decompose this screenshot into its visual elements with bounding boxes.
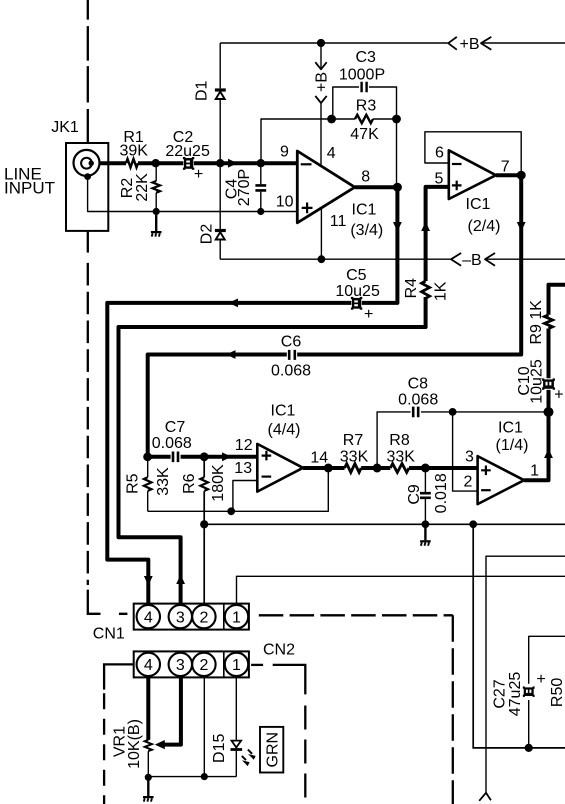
svg-text:13: 13 [234, 460, 252, 477]
SECTION: flow arrows [144, 159, 553, 586]
resistor R7 [345, 464, 362, 473]
wire CN2 boundary right corner [273, 665, 306, 695]
wire +B rail [220, 42, 565, 44]
node C4 pin10 junction [257, 208, 264, 215]
resistor R3 [355, 115, 373, 123]
wire -B rail [220, 258, 565, 260]
svg-text:180K: 180K [210, 464, 227, 502]
op-amp IC1 4/4 minus mark [262, 476, 272, 478]
potentiometer VR1 wiper arrow [155, 740, 165, 749]
svg-text:8: 8 [361, 168, 370, 185]
node arrow up on pin1 riser [544, 449, 553, 459]
node C2 D-rail junction [216, 159, 224, 167]
wire C5 bus from pin8 [107, 187, 397, 606]
wire D2 rail upper [219, 163, 221, 229]
svg-text:11: 11 [330, 213, 347, 230]
svg-text:0.018: 0.018 [433, 473, 450, 513]
svg-text:2: 2 [199, 609, 208, 626]
node C10 output junction [544, 407, 554, 417]
resistor R2 [152, 181, 160, 193]
svg-text:4: 4 [327, 145, 336, 162]
node +B drop Y connector [315, 96, 326, 103]
wire dashed boundary below JK1 [87, 231, 89, 253]
svg-text:4: 4 [144, 609, 153, 626]
wire CN2 pin2 drop [203, 675, 205, 776]
SECTION: medium wires [204, 457, 565, 748]
resistor R4 [422, 281, 430, 298]
op-amp IC1 3/4 minus mark [301, 163, 312, 165]
wire VR1 lower lead [147, 751, 149, 777]
node C8 pin2 junction [449, 408, 457, 416]
wire main signal segment C [194, 161, 297, 165]
wire main signal segment A [91, 161, 126, 165]
node arrow down on pin8 riser [393, 222, 402, 232]
wire R3 line [332, 118, 397, 120]
svg-text:0.068: 0.068 [398, 392, 438, 409]
op-amp IC1 1/4 [478, 456, 524, 504]
svg-text:6: 6 [435, 145, 444, 162]
wire CN2 boundary right dashed [304, 706, 306, 804]
wire CN2 boundary right stub [251, 664, 263, 666]
op-amp IC1 4/4 plus mark [262, 451, 272, 461]
diode D2 [215, 231, 226, 240]
wire riser to bottom corner [473, 524, 565, 748]
capacitor C6 [289, 350, 295, 360]
wire dashed module boundary top segment [87, 0, 89, 144]
wire pin12 line segment B [181, 455, 258, 459]
wire IC1 1/4 output pin1 [524, 412, 548, 480]
capacitor C5 [351, 297, 362, 310]
wire R50 box with C27 [529, 636, 565, 748]
wire R5 riser [147, 457, 149, 512]
wire pin2 riser IC1 1/4 [453, 412, 477, 491]
node C4 feedback junction [257, 159, 265, 167]
svg-text:9: 9 [280, 144, 289, 161]
svg-text:R8: R8 [389, 432, 410, 449]
svg-text:D1: D1 [194, 80, 211, 101]
node mid bus riser junction [469, 520, 477, 528]
wire CN2 pin4 to VR1 [146, 675, 150, 740]
node arrow right on signal line [228, 159, 238, 168]
svg-text:10K(B): 10K(B) [126, 719, 143, 769]
ground at C9 [420, 524, 431, 546]
node R3 left [327, 115, 336, 124]
wire D1 rail upper [219, 43, 221, 88]
wire mid bus line [204, 523, 565, 525]
svg-text:+: + [536, 671, 545, 688]
wire pin12 line segment A [148, 455, 171, 459]
svg-text:33K: 33K [386, 449, 415, 466]
svg-text:+B: +B [459, 36, 479, 53]
node arrow down to CN1 pin4 [144, 576, 153, 586]
wire CN1 pin2 drop [203, 524, 205, 606]
svg-text:2: 2 [199, 657, 208, 674]
wire pin5 R4 bus [119, 187, 449, 606]
svg-text:33K: 33K [340, 449, 369, 466]
svg-text:(3/4): (3/4) [350, 222, 383, 239]
resistor R9 [545, 315, 553, 329]
node +B chevron left [448, 37, 457, 50]
wire R2 riser lower [155, 193, 157, 212]
svg-text:10: 10 [276, 193, 294, 210]
svg-text:270P: 270P [236, 169, 253, 206]
svg-text:C5: C5 [346, 267, 367, 284]
op-amp IC1 3/4 plus mark [302, 203, 313, 214]
wire pin11 riser [320, 208, 322, 259]
svg-text:D15: D15 [211, 734, 228, 763]
SECTION: boundary dashes [88, 0, 453, 804]
svg-text:1: 1 [232, 657, 241, 674]
node VR1 bottom [145, 774, 152, 781]
node arrow left on C6 bus [226, 350, 236, 359]
node R3 right [392, 115, 401, 124]
svg-text:47K: 47K [350, 126, 379, 143]
wire D2 rail lower [219, 239, 221, 259]
svg-text:33K: 33K [155, 467, 172, 496]
node R1 R2 junction [152, 159, 160, 167]
svg-text:(2/4): (2/4) [468, 218, 501, 235]
svg-text:12: 12 [235, 437, 253, 454]
svg-text:INPUT: INPUT [4, 178, 55, 197]
wire pin13 stub and riser [233, 481, 257, 512]
SECTION: bus chevrons [315, 37, 495, 266]
LED D15 [231, 741, 255, 765]
wire IC1 4/4 feedback line [148, 468, 329, 511]
wire C6 bus from pin7 [148, 175, 522, 457]
wire C10 R9 riser [549, 285, 565, 412]
connector CN2 [134, 651, 249, 677]
capacitor C2 [183, 157, 194, 170]
node +B chevron right [481, 37, 491, 50]
SECTION: thick wires [91, 163, 565, 744]
wire main signal segment B [138, 161, 183, 165]
node C9 bottom [422, 520, 430, 528]
connector JK1 [66, 143, 108, 231]
wire CN2 boundary left corner [104, 664, 134, 689]
wire R2 riser upper [155, 163, 157, 181]
svg-text:R4: R4 [403, 278, 420, 299]
svg-text:1: 1 [530, 463, 539, 480]
SECTION: junction dots [143, 39, 553, 781]
wire IC1 3/4 output pin8 [355, 185, 398, 189]
op-amp IC1 1/4 minus mark [481, 489, 491, 491]
capacitor C27 [523, 686, 535, 696]
svg-text:22u25: 22u25 [165, 143, 210, 160]
wire CN2 pin3 to wiper [164, 675, 181, 744]
svg-text:+: + [194, 166, 203, 183]
wire D1 rail lower [219, 99, 221, 163]
svg-text:R7: R7 [343, 432, 364, 449]
op-amp IC1 1/4 plus mark [481, 466, 491, 476]
wire big loop right side [486, 556, 565, 793]
svg-text:0.068: 0.068 [152, 435, 192, 452]
svg-text:CN2: CN2 [263, 642, 295, 659]
node CN2 pin2 bottom [201, 773, 208, 780]
wire IC1 2/4 feedback loop [425, 132, 521, 175]
resistor R8 [390, 464, 409, 473]
label box GRN [260, 727, 283, 773]
svg-text:3: 3 [465, 448, 474, 465]
svg-text:R3: R3 [356, 98, 377, 115]
svg-text:39K: 39K [119, 142, 148, 159]
node C27 bottom [525, 744, 533, 752]
op-amp IC1 2/4 minus mark [452, 163, 462, 165]
wire +B drop stem [320, 43, 322, 69]
diode D1 [215, 90, 226, 99]
svg-text:R9 1K: R9 1K [528, 300, 545, 345]
SECTION: thin wires [88, 43, 565, 801]
svg-text:GRN: GRN [264, 732, 281, 768]
svg-text:R5: R5 [125, 473, 142, 494]
svg-text:D2: D2 [199, 224, 216, 245]
wire CN2 boundary left dashed [103, 693, 105, 804]
node arrow up to CN1 pin3 [176, 575, 185, 585]
wire C9 riser [424, 468, 426, 524]
node pin13 feedback [227, 507, 235, 515]
wire pin14 R7 R8 to pin3 [303, 466, 477, 470]
svg-text:C8: C8 [408, 376, 429, 393]
node R6 bottom [200, 520, 208, 528]
resistor R6 [200, 477, 208, 491]
node pin11 -B junction [318, 255, 326, 263]
node pin7 output [517, 171, 526, 180]
wire R3 feedback to C4 node [261, 119, 332, 163]
svg-text:7: 7 [501, 159, 510, 176]
wire pin10 ground return [88, 178, 298, 212]
wire C3 loop [333, 87, 397, 187]
svg-text:R6: R6 [181, 473, 198, 494]
wire CN1 pin1 line [237, 576, 565, 606]
capacitor C8 [413, 407, 418, 418]
wire C4 riser lower [260, 192, 262, 212]
capacitor C9 [420, 493, 431, 498]
svg-text:C3: C3 [355, 49, 376, 66]
wire dashed boundary vertical right side [452, 615, 454, 804]
capacitor C10 [542, 378, 555, 389]
op-amp IC1 2/4 plus mark [452, 181, 462, 191]
svg-text:2: 2 [464, 474, 473, 491]
svg-text:JK1: JK1 [51, 119, 79, 136]
op-amp IC1 2/4 [449, 150, 496, 199]
svg-text:R50: R50 [549, 678, 565, 707]
svg-text:C7: C7 [165, 419, 186, 436]
node pin8 output [393, 183, 402, 192]
node R7 R8 junction [373, 464, 382, 473]
svg-text:4: 4 [144, 657, 153, 674]
node -B chevron right [485, 253, 495, 266]
svg-text:C9: C9 [406, 484, 423, 505]
svg-text:3: 3 [176, 657, 185, 674]
svg-text:47u25: 47u25 [507, 672, 524, 717]
svg-text:(1/4): (1/4) [496, 437, 529, 454]
svg-text:IC1: IC1 [498, 420, 523, 437]
connector CN1 [134, 604, 249, 630]
svg-text:14: 14 [310, 449, 328, 466]
svg-text:–B: –B [462, 252, 482, 269]
capacitor C4 [255, 185, 266, 190]
ground at R2 [151, 212, 162, 237]
resistor R1 [126, 159, 138, 167]
wire C4 riser upper [260, 163, 262, 184]
node C7 left [143, 452, 152, 461]
node C7 right [200, 452, 209, 461]
svg-text:0.068: 0.068 [271, 363, 311, 380]
node +B tap [317, 39, 325, 47]
svg-text:+: + [554, 386, 563, 403]
ground at VR1 [143, 777, 154, 801]
svg-text:10u25: 10u25 [335, 283, 380, 300]
svg-text:CN1: CN1 [93, 626, 125, 643]
node -B chevron left [451, 253, 461, 266]
capacitor C3 [362, 82, 367, 93]
node arrow down on pin7 riser [517, 222, 526, 232]
svg-text:1K: 1K [433, 281, 450, 301]
wire boundary corner at CN1 left [88, 590, 128, 614]
svg-text:22K: 22K [134, 173, 151, 202]
resistor R5 [144, 477, 152, 491]
wire IC1 2/4 output pin7 [496, 173, 521, 177]
svg-text:IC1: IC1 [466, 196, 491, 213]
wire R6 riser [203, 457, 205, 525]
capacitor C7 [173, 452, 178, 463]
svg-text:10u25: 10u25 [528, 359, 545, 404]
node arrow up on pin5 riser [421, 222, 430, 232]
svg-text:+: + [364, 306, 373, 323]
wire CN2 pin1 D15 lower [235, 751, 237, 777]
svg-text:IC1: IC1 [271, 403, 296, 420]
wire C8 line [377, 412, 548, 468]
node +B drop arrow chevron [315, 62, 326, 69]
op-amp IC1 4/4 [257, 444, 303, 492]
wire CN2 pin1 D15 upper [235, 675, 237, 739]
svg-text:1: 1 [232, 609, 241, 626]
potentiometer VR1 [145, 740, 152, 751]
node arrow right on pin12 line [222, 452, 232, 461]
svg-text:5: 5 [435, 170, 444, 187]
wire dashed boundary right of CN1 [259, 614, 453, 616]
node off-page chevron bottom [479, 793, 491, 801]
node pin14 output [324, 464, 333, 473]
node arrow left on C5 bus [229, 299, 239, 308]
node R8 C9 junction [421, 464, 430, 473]
svg-text:1000P: 1000P [339, 67, 385, 84]
svg-text:3: 3 [176, 609, 185, 626]
wire CN2 bottom return [148, 776, 236, 778]
wire pin4 riser from +B [320, 103, 322, 167]
node R2 ground junction [153, 208, 160, 215]
svg-text:+B: +B [314, 72, 331, 92]
op-amp IC1 3/4 [297, 151, 355, 223]
svg-text:IC1: IC1 [352, 202, 377, 219]
svg-text:C6: C6 [281, 334, 302, 351]
svg-text:(4/4): (4/4) [268, 422, 301, 439]
